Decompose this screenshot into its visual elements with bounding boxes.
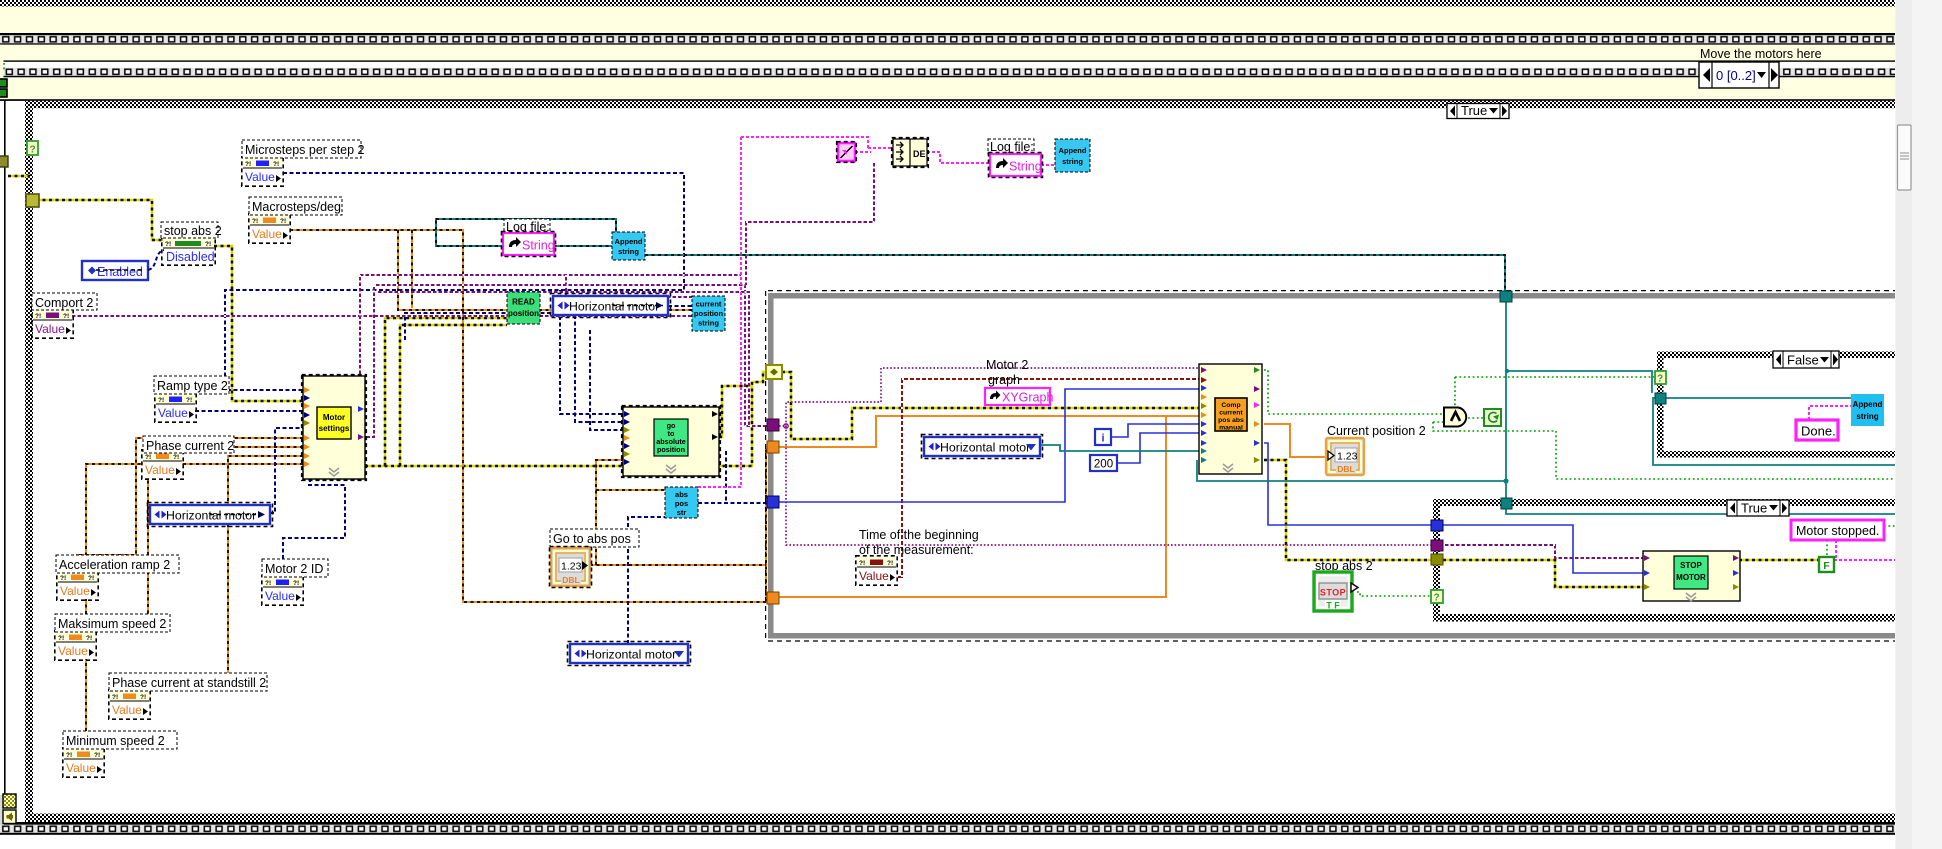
svg-text:?!: ?! xyxy=(245,161,251,168)
svg-text:?!: ?! xyxy=(859,560,865,567)
svg-text:XYGraph: XYGraph xyxy=(1002,391,1053,405)
svg-text:1.23: 1.23 xyxy=(1337,451,1358,463)
svg-text:?!: ?! xyxy=(186,397,192,404)
svg-text:Motor 2 ID: Motor 2 ID xyxy=(265,562,323,576)
svg-text:position: position xyxy=(657,445,685,454)
svg-text:?!: ?! xyxy=(86,635,92,642)
svg-text:Enabled: Enabled xyxy=(97,265,143,279)
svg-text:Comp: Comp xyxy=(1221,402,1240,409)
svg-text:String: String xyxy=(522,239,555,253)
svg-text:200: 200 xyxy=(1094,459,1113,471)
svg-text:STOP: STOP xyxy=(1680,561,1702,570)
svg-text:?!: ?! xyxy=(94,752,100,759)
svg-text:?: ? xyxy=(30,145,36,156)
svg-text:?!: ?! xyxy=(58,635,64,642)
svg-text:?: ? xyxy=(1657,374,1663,385)
svg-text:Time of the beginning: Time of the beginning xyxy=(859,528,979,542)
svg-text:READ: READ xyxy=(512,298,535,307)
svg-text:?!: ?! xyxy=(63,313,69,320)
svg-text:0 [0..2]: 0 [0..2] xyxy=(1716,68,1756,83)
svg-text:F: F xyxy=(1823,560,1830,572)
svg-text:?!: ?! xyxy=(165,241,171,248)
svg-text:?!: ?! xyxy=(66,752,72,759)
svg-text:MOTOR: MOTOR xyxy=(1676,573,1706,582)
svg-text:pos: pos xyxy=(675,499,688,508)
svg-text:Append: Append xyxy=(1853,400,1883,409)
svg-text:Current position 2: Current position 2 xyxy=(1327,424,1426,438)
svg-text:Append: Append xyxy=(615,237,643,246)
svg-text:graph: graph xyxy=(988,373,1020,387)
svg-text:True: True xyxy=(1461,103,1487,118)
svg-text:Macrosteps/deg: Macrosteps/deg xyxy=(252,200,341,214)
svg-text:?!: ?! xyxy=(265,580,271,587)
svg-text:pos abs: pos abs xyxy=(1218,417,1244,424)
svg-text:abs: abs xyxy=(675,490,688,499)
svg-text:Value: Value xyxy=(158,406,188,420)
svg-text:position: position xyxy=(694,309,724,318)
svg-text:?!: ?! xyxy=(145,454,151,461)
svg-text:current: current xyxy=(1219,410,1243,417)
svg-text:Append: Append xyxy=(1059,146,1087,155)
svg-text:?!: ?! xyxy=(158,397,164,404)
svg-text:Move the motors here: Move the motors here xyxy=(1700,47,1822,61)
svg-text:Value: Value xyxy=(66,761,96,775)
svg-text:stop abs 2: stop abs 2 xyxy=(164,224,222,238)
svg-text:Value: Value xyxy=(245,170,275,184)
svg-text:?!: ?! xyxy=(887,560,893,567)
svg-text:T F: T F xyxy=(1326,601,1340,611)
svg-text:Comport 2: Comport 2 xyxy=(35,296,93,310)
svg-text:Minimum speed 2: Minimum speed 2 xyxy=(66,734,165,748)
svg-text:STOP: STOP xyxy=(1320,588,1346,598)
svg-text:settings: settings xyxy=(319,424,350,433)
svg-text:Microsteps per step 2: Microsteps per step 2 xyxy=(245,143,365,157)
svg-text:?!: ?! xyxy=(112,694,118,701)
svg-text:Motor: Motor xyxy=(323,413,345,422)
svg-text:String: String xyxy=(1009,160,1042,174)
svg-text:?!: ?! xyxy=(205,241,211,248)
svg-text:manual: manual xyxy=(1219,425,1243,432)
svg-text:Done.: Done. xyxy=(1801,424,1836,439)
svg-text:Horizontal motor: Horizontal motor xyxy=(940,441,1030,455)
svg-text:string: string xyxy=(1856,412,1878,421)
svg-text:?!: ?! xyxy=(273,161,279,168)
svg-text:Horizontal motor: Horizontal motor xyxy=(586,648,676,662)
svg-text:current: current xyxy=(696,300,722,309)
svg-text:Maksimum speed 2: Maksimum speed 2 xyxy=(58,617,166,631)
svg-text:Horizontal motor: Horizontal motor xyxy=(569,300,659,314)
svg-text:Value: Value xyxy=(58,644,88,658)
svg-text:Value: Value xyxy=(145,463,175,477)
svg-text:?!: ?! xyxy=(293,580,299,587)
svg-text:Value: Value xyxy=(859,569,889,583)
svg-text:position: position xyxy=(508,309,539,318)
svg-text:string: string xyxy=(618,247,639,256)
svg-text:Horizontal motor: Horizontal motor xyxy=(166,509,256,523)
svg-text:Phase current 2: Phase current 2 xyxy=(146,439,234,453)
svg-text:Log file:: Log file: xyxy=(506,220,550,234)
svg-text:DBL: DBL xyxy=(1337,464,1354,474)
svg-text:Value: Value xyxy=(252,227,282,241)
svg-text:Motor 2: Motor 2 xyxy=(986,358,1028,372)
svg-text:?!: ?! xyxy=(88,575,94,582)
svg-text:?!: ?! xyxy=(280,218,286,225)
svg-text:1.23: 1.23 xyxy=(561,561,582,573)
svg-text:Disabled: Disabled xyxy=(166,250,215,264)
svg-text:Acceleration ramp 2: Acceleration ramp 2 xyxy=(59,558,170,572)
svg-text:?!: ?! xyxy=(60,575,66,582)
svg-text:string: string xyxy=(1062,157,1083,166)
svg-text:False: False xyxy=(1787,353,1819,368)
svg-text:True: True xyxy=(1741,501,1767,516)
svg-text:DBL: DBL xyxy=(562,575,579,585)
svg-text:Value: Value xyxy=(60,584,90,598)
svg-text:Value: Value xyxy=(112,703,142,717)
svg-text:str: str xyxy=(677,508,687,517)
svg-text:i: i xyxy=(1101,433,1104,445)
svg-text:?!: ?! xyxy=(252,218,258,225)
svg-text:Ramp type 2: Ramp type 2 xyxy=(157,379,228,393)
svg-text:?!: ?! xyxy=(35,313,41,320)
svg-text:Value: Value xyxy=(265,589,295,603)
svg-text:Go to abs pos: Go to abs pos xyxy=(553,532,631,546)
svg-text:Phase current at standstill 2: Phase current at standstill 2 xyxy=(112,676,266,690)
svg-text:of the measurement:: of the measurement: xyxy=(859,543,974,557)
svg-text:Motor stopped.: Motor stopped. xyxy=(1796,524,1879,538)
svg-text:string: string xyxy=(698,319,719,328)
svg-text:Value: Value xyxy=(35,322,65,336)
svg-text:?!: ?! xyxy=(140,694,146,701)
svg-text:?: ? xyxy=(1434,593,1440,604)
svg-text:DE: DE xyxy=(913,149,926,159)
svg-text:?!: ?! xyxy=(173,454,179,461)
